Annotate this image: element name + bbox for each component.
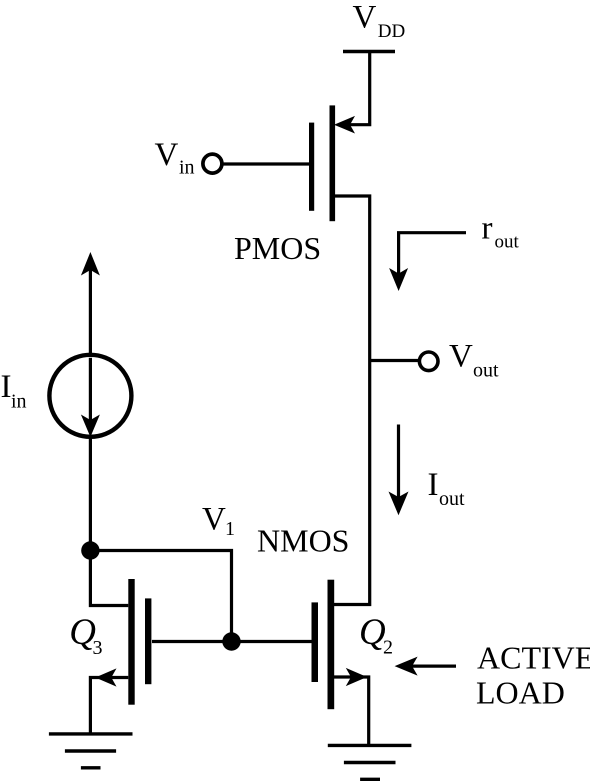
wire Q2 source horizontal and down to ground xyxy=(334,677,369,745)
junction dot at I_in / Q3 drain xyxy=(81,541,99,559)
I_out arrowhead xyxy=(389,492,409,516)
svg-text:r: r xyxy=(482,211,493,247)
wire current source up arrow shaft xyxy=(89,270,92,354)
wire V1 horizontal and drop to gate rail xyxy=(90,551,231,642)
label Q2 xyxy=(359,612,393,658)
Q3 source arrowhead (points out, left) xyxy=(95,668,116,686)
Q2 source arrowhead (points out, right) xyxy=(346,668,367,686)
svg-text:out: out xyxy=(439,488,465,510)
ACTIVE LOAD arrowhead (points left) xyxy=(395,657,418,676)
svg-text:out: out xyxy=(495,231,520,252)
transistor Q3 gate bar xyxy=(145,598,151,684)
current source internal arrowhead xyxy=(81,415,100,438)
label r_out xyxy=(482,211,520,253)
wire gate rail to Q2 gate xyxy=(232,640,312,643)
svg-text:out: out xyxy=(473,360,499,382)
transistor Q2 channel bar xyxy=(328,580,335,710)
transistor Q2 gate bar xyxy=(312,602,319,682)
node Vout label xyxy=(449,339,499,382)
svg-text:I: I xyxy=(1,369,12,405)
svg-text:LOAD: LOAD xyxy=(476,675,565,711)
terminal circle Vin xyxy=(203,154,222,173)
wire Q3 drain drop from junction xyxy=(90,551,128,606)
current source internal arrow shaft xyxy=(89,358,92,421)
svg-text:DD: DD xyxy=(378,21,405,42)
wire gate rail to Q3 gate xyxy=(152,640,232,643)
svg-text:V: V xyxy=(353,0,377,36)
label I_out xyxy=(428,467,466,510)
label Q3 xyxy=(69,612,102,659)
svg-text:2: 2 xyxy=(383,636,393,658)
transistor U1 PMOS channel bar xyxy=(330,105,336,221)
VDD power rail xyxy=(343,50,395,54)
ground symbol Q3: middle line xyxy=(65,749,116,752)
ground symbol Q3: top line xyxy=(49,732,133,735)
svg-text:V: V xyxy=(155,137,179,173)
svg-text:ACTIVE: ACTIVE xyxy=(477,640,590,676)
wire Q3 source horizontal and down to ground xyxy=(90,678,128,734)
svg-text:in: in xyxy=(179,157,195,179)
current source I_in circle xyxy=(49,355,131,437)
svg-text:PMOS: PMOS xyxy=(234,230,321,266)
node Vin label xyxy=(155,137,195,179)
ground symbol Q2: bottom line xyxy=(360,778,380,781)
svg-text:in: in xyxy=(11,391,27,413)
node V1 label xyxy=(202,502,235,541)
svg-text:V: V xyxy=(202,502,226,538)
svg-text:I: I xyxy=(428,467,439,503)
transistor Q3 channel bar xyxy=(128,579,134,705)
wire VDD rail to PMOS source xyxy=(350,52,370,125)
svg-text:1: 1 xyxy=(225,518,235,540)
wire Vout stub xyxy=(370,359,419,362)
wire Vin terminal to PMOS gate xyxy=(222,162,309,165)
r_out arrowhead xyxy=(389,268,408,291)
node VDD label xyxy=(353,0,406,42)
ACTIVE LOAD pointer arrow shaft xyxy=(412,664,457,667)
r_out indicator bent arrow xyxy=(399,233,466,274)
svg-text:NMOS: NMOS xyxy=(257,522,349,558)
transistor U1 PMOS gate bar xyxy=(309,123,314,211)
terminal circle Vout xyxy=(419,352,438,371)
I_out indicator arrow shaft xyxy=(397,425,400,498)
ground symbol Q3: bottom line xyxy=(81,766,101,769)
ground symbol Q2: top line xyxy=(328,744,412,747)
PMOS source arrow (points into channel) xyxy=(334,116,355,134)
wire current source to node V1 junction xyxy=(89,437,92,551)
junction dot at gate rail xyxy=(222,632,240,650)
ground symbol Q2: middle line xyxy=(344,761,396,764)
label I_in xyxy=(1,369,27,413)
wire PMOS drain down the output column to Q2 drain xyxy=(334,196,370,605)
svg-text:V: V xyxy=(449,339,473,375)
svg-text:3: 3 xyxy=(93,637,103,659)
svg-text:Q: Q xyxy=(359,612,386,653)
I_in source top arrowhead (up) xyxy=(81,252,100,276)
